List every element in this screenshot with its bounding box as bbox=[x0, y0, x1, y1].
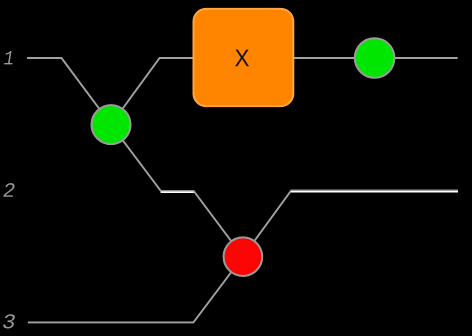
wire green-node to X-box segment bbox=[111, 58, 193, 125]
wire red-node diagonal up to row-2 output bbox=[243, 190, 291, 256]
wire row-2 left horizontal white underline bbox=[161, 191, 194, 193]
wire row-2 diagonal down to red node bbox=[194, 191, 243, 257]
label wire 3 bbox=[3, 314, 15, 328]
wire row-2 right horizontal gray bbox=[291, 189, 458, 191]
label wire 2 bbox=[3, 183, 14, 197]
wire qubit-3 input to red node bbox=[28, 257, 243, 323]
wire green-node-1 diagonal down to row-2 bbox=[111, 125, 161, 191]
wire qubit-1 input segment bbox=[27, 58, 111, 125]
wire row-2 left horizontal gray bbox=[160, 190, 194, 192]
label wire 1 bbox=[4, 51, 12, 64]
X gate label bbox=[235, 50, 249, 67]
green node 2 (Z spider) bbox=[355, 38, 395, 78]
wire X-box output through green node 2 bbox=[293, 57, 457, 59]
red node (X spider) bbox=[224, 237, 263, 276]
X gate box bbox=[194, 9, 294, 106]
green node 1 (Z spider) bbox=[92, 105, 131, 144]
wire row-2 right horizontal white underline bbox=[291, 191, 458, 193]
